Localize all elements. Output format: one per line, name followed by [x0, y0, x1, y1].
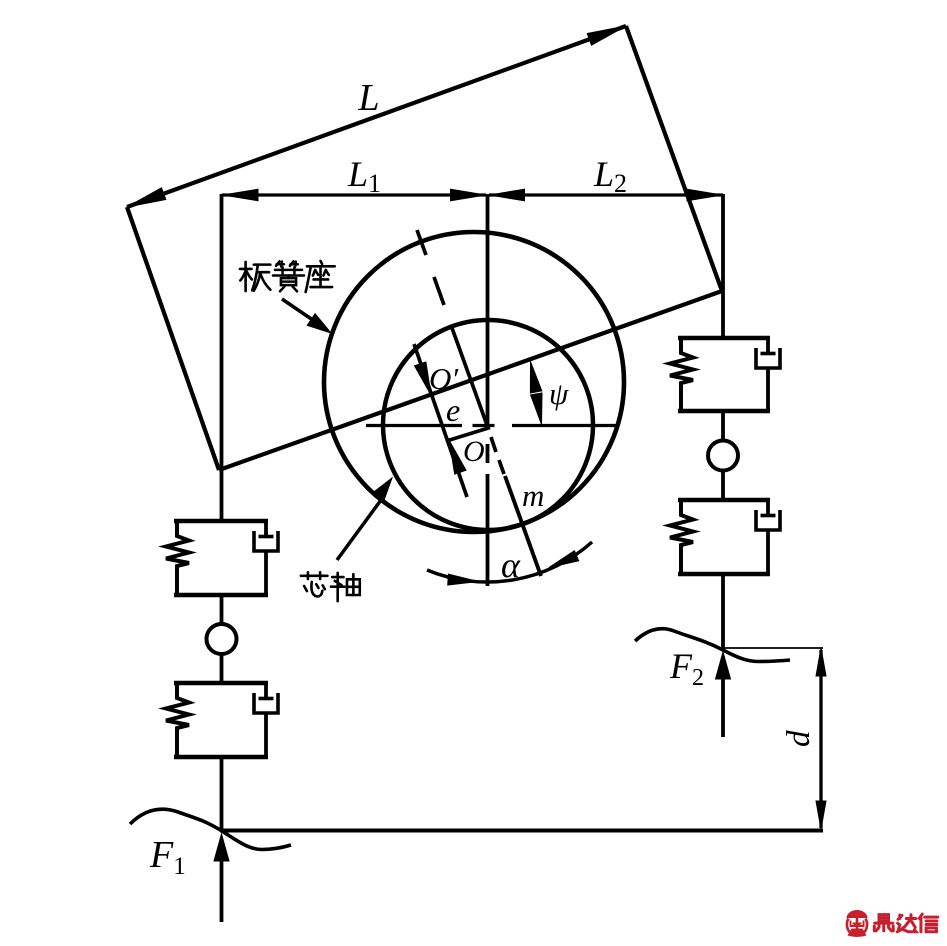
L2 right arrowhead	[687, 189, 722, 201]
svg-text:F1: F1	[149, 834, 186, 880]
leaf spring bottom edge / spring axis line	[219, 291, 722, 470]
logo text da	[897, 915, 916, 932]
leaf spring top edge / dimension line L	[127, 26, 626, 207]
F2 force arrow shaft	[721, 664, 725, 737]
svg-text:d: d	[781, 730, 817, 747]
dimension L left arrowhead	[127, 188, 166, 207]
left upper spring-damper damper cup	[254, 531, 278, 551]
left lower spring-damper damper plunger head	[259, 697, 274, 701]
left lower spring-damper spring (zigzag left side)	[166, 683, 189, 757]
svg-text:L: L	[357, 77, 379, 119]
left lower spring-damper box bottom bar	[174, 755, 268, 759]
core shaft circle (inner)	[383, 320, 593, 530]
right upper spring-damper damper lower rod	[766, 368, 770, 411]
svg-text:m: m	[522, 478, 544, 513]
angle psi double arrow (upper head touching spring axis)	[530, 362, 541, 394]
horizontal centerline (right part)	[512, 424, 617, 427]
label ban-huang-zuo char 2	[273, 261, 304, 291]
right joint circle	[708, 441, 738, 471]
right connector wire upper	[721, 411, 725, 441]
F2 ground wavy line	[635, 629, 790, 662]
F2 force arrowhead	[716, 652, 731, 679]
center vertical line (center dash)	[486, 444, 490, 463]
left upper spring-damper damper lower rod	[264, 551, 268, 595]
leaf spring left edge	[127, 207, 219, 470]
right upper spring-damper damper plunger rod	[766, 338, 770, 354]
svg-text:F2: F2	[669, 646, 704, 691]
core shaft leader arrowhead	[372, 478, 392, 502]
d dimension top arrowhead	[816, 648, 826, 676]
left upper spring-damper spring (zigzag left side)	[166, 521, 189, 595]
eccentric axis long dash through O prime and O	[452, 328, 487, 425]
angle alpha arc	[427, 542, 592, 582]
right lower spring-damper box top bar	[678, 498, 770, 502]
L1 right arrowhead	[451, 189, 486, 201]
right upper spring-damper box top bar	[678, 336, 770, 340]
left extension line (suspension axis, x=221.5)	[220, 194, 224, 519]
right lower spring-damper box bottom bar	[678, 572, 770, 576]
right wire to ground wave	[721, 574, 725, 650]
F1 force arrowhead	[214, 834, 229, 861]
svg-text:L2: L2	[593, 154, 627, 198]
label ban-huang-zuo char 3	[306, 261, 335, 292]
left connector wire upper	[220, 595, 224, 624]
eccentric axis dashes below O	[491, 437, 496, 452]
core shaft leader line	[337, 500, 381, 560]
leaf spring seat leader line	[282, 299, 326, 329]
left lower spring-damper box top bar	[174, 681, 268, 685]
leaf spring right edge	[626, 26, 722, 291]
dimension line L1	[222, 193, 486, 196]
e dimension lower arrowhead (points to O)	[450, 441, 467, 474]
left lower spring-damper damper plunger rod	[264, 683, 268, 699]
left wire to ground wave	[220, 757, 224, 831]
left upper spring-damper damper plunger head	[259, 535, 274, 539]
eccentricity e dimension line	[414, 344, 467, 497]
svg-text:O: O	[463, 435, 485, 468]
right upper spring-damper box bottom bar	[678, 409, 770, 413]
leaf spring seat leader arrowhead	[307, 314, 331, 333]
right lower spring-damper damper plunger rod	[766, 500, 770, 516]
logo text xin	[919, 914, 937, 932]
left lower spring-damper damper lower rod	[264, 713, 268, 757]
center vertical line (lower part)	[486, 474, 490, 586]
radius line to mass m	[505, 476, 541, 576]
left joint circle	[207, 624, 237, 654]
center vertical line (upper part)	[486, 194, 490, 427]
alpha arc left arrowhead (points at center vertical line)	[448, 574, 478, 585]
right lower spring-damper damper lower rod	[766, 530, 770, 574]
right upper spring-damper damper cup	[756, 348, 780, 368]
label ban-huang-zuo (leaf spring seat) char 1	[240, 262, 270, 291]
d dimension bottom arrowhead	[816, 801, 826, 829]
angle psi double arrow (lower head touching horizontal centerline)	[531, 393, 542, 425]
e dimension upper arrowhead (points to O prime)	[415, 362, 432, 395]
leaf spring seat bore circle (large)	[324, 232, 624, 532]
logo emblem circle	[847, 910, 868, 937]
left upper spring-damper box bottom bar	[174, 593, 268, 597]
L1 left arrowhead	[223, 189, 258, 201]
dimension L right arrowhead	[587, 26, 626, 45]
svg-text:ψ: ψ	[549, 376, 569, 411]
d dimension extension line	[723, 647, 823, 649]
d dimension line	[819, 650, 822, 828]
horizontal centerline (center dash)	[473, 424, 495, 427]
svg-text:e: e	[446, 392, 460, 428]
F1 force arrow shaft	[220, 846, 224, 922]
logo text ding	[874, 915, 893, 931]
left upper spring-damper damper plunger rod	[264, 521, 268, 537]
left lower spring-damper damper cup	[254, 693, 278, 713]
F1 ground wavy line	[130, 809, 291, 849]
tick line through O perpendicular to eccentric axis	[448, 428, 490, 441]
left upper spring-damper box top bar	[174, 519, 268, 523]
bottom reference line	[220, 829, 823, 833]
right extension line (suspension axis, x=723)	[721, 194, 725, 337]
right lower spring-damper damper cup	[756, 510, 780, 530]
label xin-zhou char 2	[331, 573, 360, 601]
right connector wire lower	[721, 471, 725, 501]
left connector wire lower	[220, 654, 224, 683]
dimension line L2	[489, 193, 723, 196]
right lower spring-damper damper plunger head	[761, 514, 776, 518]
horizontal centerline (left part)	[366, 424, 462, 427]
svg-text:α: α	[501, 545, 521, 585]
right upper spring-damper spring (zigzag left side)	[670, 338, 693, 411]
L2 left arrowhead	[490, 189, 525, 201]
label xin-zhou (core shaft) char 1	[301, 572, 328, 596]
right upper spring-damper damper plunger head	[761, 352, 776, 356]
svg-text:O′: O′	[429, 361, 459, 396]
eccentric axis dashed line (upper dashes)	[417, 230, 426, 255]
svg-text:L1: L1	[347, 154, 381, 198]
alpha arc right arrowhead (points at mass radius line)	[549, 551, 579, 568]
right lower spring-damper spring (zigzag left side)	[670, 500, 693, 574]
